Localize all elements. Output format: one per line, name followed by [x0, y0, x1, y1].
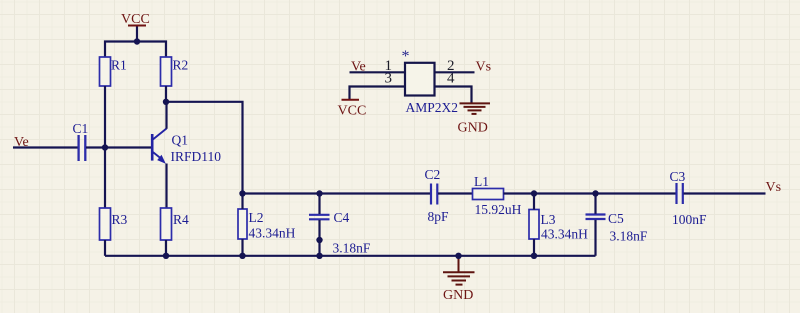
svg-text:L3: L3	[541, 212, 556, 227]
wire pin3 to VCC	[350, 87, 406, 100]
transistor Q1	[152, 129, 221, 165]
svg-text:C4: C4	[334, 210, 350, 225]
resistor R4	[161, 208, 190, 240]
junction base/bias node	[102, 144, 108, 150]
svg-text:C1: C1	[73, 121, 89, 136]
svg-text:C3: C3	[670, 169, 686, 184]
junction C4/ground rail	[316, 253, 322, 259]
svg-text:Vs: Vs	[476, 59, 492, 74]
wire C3 to Vs	[684, 192, 766, 194]
junction L2/ground rail	[239, 253, 245, 259]
svg-text:Vs: Vs	[766, 180, 782, 195]
junction L3/mid rail	[531, 190, 537, 196]
wire C1 to Q1 base	[86, 146, 151, 148]
inductor L2	[238, 209, 296, 241]
svg-text:VCC: VCC	[338, 104, 367, 119]
junction C5/mid rail	[592, 190, 598, 196]
svg-text:100nF: 100nF	[672, 212, 707, 227]
wire R1 bottom to R3 top (bias column)	[104, 86, 106, 208]
svg-text:L1: L1	[474, 174, 489, 189]
svg-text:C5: C5	[608, 211, 624, 226]
wire pin4 to GND	[435, 87, 472, 103]
wire Ve to C1	[13, 146, 78, 148]
ground symbol GND (main rail)	[443, 256, 475, 303]
wire pin2 to Vs	[435, 71, 475, 73]
svg-text:R3: R3	[112, 212, 128, 227]
capacitor C2	[425, 167, 450, 224]
wire bottom ground rail	[105, 255, 596, 257]
wire mid rail L2 to C2	[243, 192, 431, 194]
junction L3/ground rail	[531, 253, 537, 259]
power port VCC (amp)	[338, 100, 367, 119]
resistor R1	[100, 57, 127, 86]
wire L1 to C3	[504, 192, 677, 194]
wire C4 bottom lead	[318, 220, 320, 256]
wire L2 bottom lead	[241, 239, 243, 256]
junction R4/ground rail	[163, 253, 169, 259]
svg-text:AMP2X2: AMP2X2	[406, 100, 459, 115]
wire emitter to R4	[165, 164, 167, 209]
resistor R2	[161, 57, 189, 86]
capacitor C3	[670, 169, 708, 227]
wire L2 top lead	[241, 194, 243, 210]
junction L2/mid rail	[239, 190, 245, 196]
wire pin1 to Ve	[350, 71, 406, 73]
svg-text:GND: GND	[458, 121, 488, 136]
svg-text:3.18nF: 3.18nF	[333, 241, 371, 256]
wire C5 bottom lead	[594, 220, 596, 256]
svg-text:3.18nF: 3.18nF	[610, 229, 648, 244]
wire C4 top lead	[318, 194, 320, 215]
svg-text:GND: GND	[443, 288, 473, 303]
svg-text:43.34nH: 43.34nH	[541, 227, 588, 242]
op-amp U1 AMP2X2	[402, 48, 459, 115]
wire top rail R1-R2	[105, 42, 166, 58]
node collector junction	[163, 99, 169, 105]
wire L3 top lead	[533, 194, 535, 210]
inductor L1	[473, 174, 522, 217]
wire R2 bottom to collector node	[165, 86, 167, 102]
junction C4 lead	[316, 237, 322, 243]
wire L3 bottom lead	[533, 239, 535, 256]
svg-text:R2: R2	[173, 58, 189, 73]
wire R4 bottom	[165, 240, 167, 256]
svg-text:8pF: 8pF	[428, 209, 450, 224]
wire collector vertical	[165, 102, 167, 129]
capacitor C5	[586, 211, 648, 244]
capacitor C1	[73, 121, 89, 161]
junction VCC/top-rail	[134, 38, 140, 44]
wire C2 to L1	[438, 192, 473, 194]
junction C4/mid rail	[316, 190, 322, 196]
svg-text:C2: C2	[425, 167, 441, 182]
svg-text:R4: R4	[173, 212, 189, 227]
svg-text:15.92uH: 15.92uH	[475, 202, 522, 217]
svg-text:L2: L2	[249, 210, 264, 225]
inductor L3	[529, 210, 588, 242]
svg-text:43.34nH: 43.34nH	[249, 226, 296, 241]
power port VCC (top)	[121, 12, 150, 42]
svg-text:IRFD110: IRFD110	[171, 149, 222, 164]
svg-text:Q1: Q1	[172, 133, 189, 148]
capacitor C4	[309, 210, 371, 256]
wire collector node to L2 column	[166, 102, 243, 194]
ground symbol GND (amp)	[458, 103, 491, 135]
wire C5 top lead	[594, 194, 596, 214]
wire R3 bottom	[104, 240, 106, 256]
svg-text:R1: R1	[111, 58, 127, 73]
junction GND/ground rail	[455, 253, 461, 259]
resistor R3	[100, 208, 128, 240]
